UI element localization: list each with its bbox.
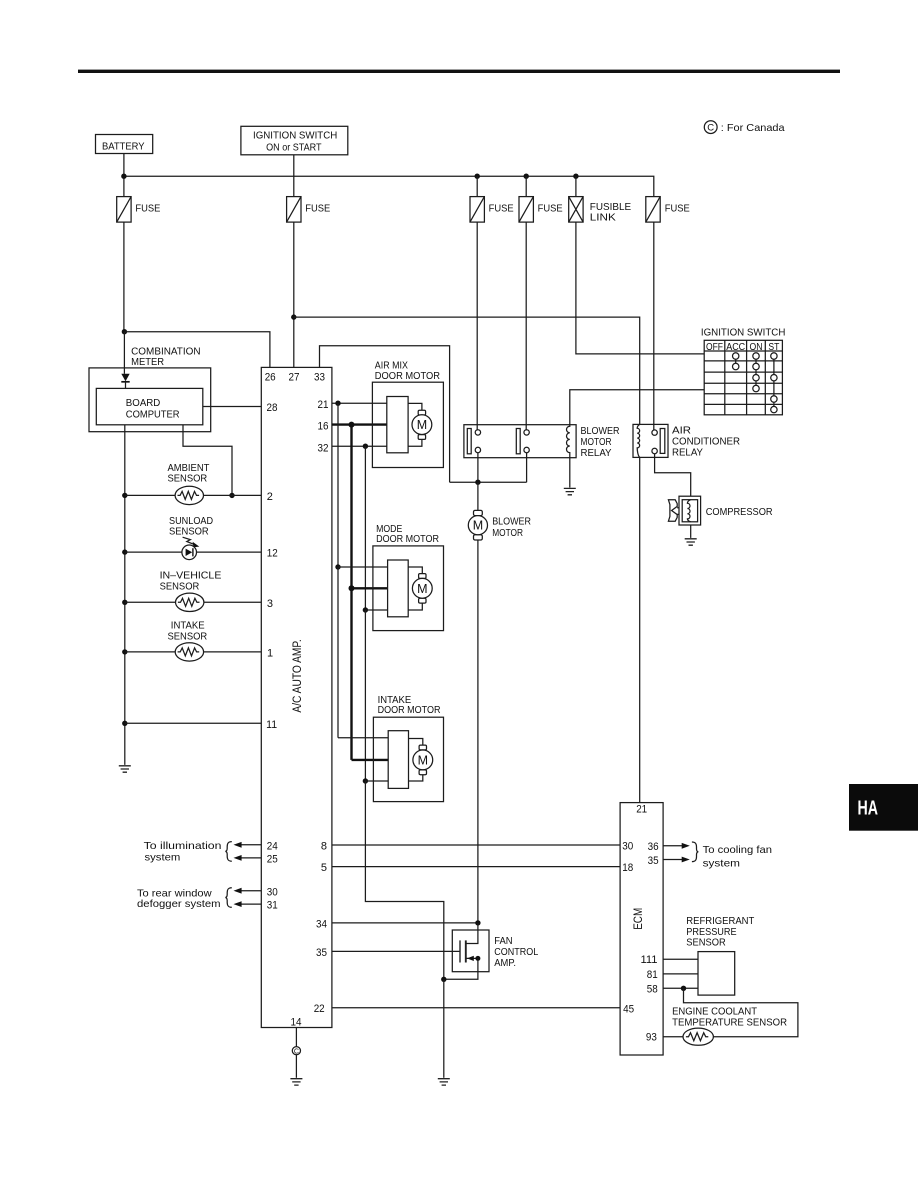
- svg-text:SENSOR: SENSOR: [168, 630, 208, 642]
- svg-text:FUSE: FUSE: [135, 203, 160, 215]
- pin 1: [267, 648, 273, 660]
- svg-text:30: 30: [622, 840, 633, 852]
- ambient sensor: [168, 462, 210, 505]
- node fuse4 tap: [524, 174, 529, 179]
- wire compressor to ground: [690, 525, 692, 538]
- wire board computer branch to ambient line: [183, 425, 232, 496]
- pin 3: [267, 598, 273, 610]
- brace illumination: [225, 842, 231, 862]
- HA section tab: [849, 784, 918, 831]
- arrow to illumination pin 25: [234, 855, 262, 861]
- wire a/c relay contact to compressor: [655, 454, 691, 497]
- ECM pin 36: [648, 841, 659, 853]
- label to rear window defogger system: [137, 887, 221, 910]
- svg-text:24: 24: [267, 840, 278, 852]
- ECM pin 111: [641, 954, 658, 966]
- svg-text:IGNITION SWITCH: IGNITION SWITCH: [253, 130, 337, 142]
- svg-text:2: 2: [267, 491, 273, 503]
- wire meter feed down to diode: [123, 332, 125, 374]
- svg-text:BLOWER: BLOWER: [492, 516, 531, 528]
- wire junction bar under relay: [450, 481, 527, 483]
- svg-text:FUSE: FUSE: [305, 203, 330, 215]
- pin 11: [266, 719, 277, 731]
- wire to a/c relay coil: [294, 317, 640, 424]
- ground fan control amp: [438, 1079, 450, 1085]
- pin 33: [314, 371, 325, 383]
- svg-text:MOTOR: MOTOR: [492, 527, 523, 539]
- wire intake line b thick: [352, 759, 389, 761]
- svg-text:FUSE: FUSE: [665, 203, 690, 215]
- fusible link FL: [569, 197, 631, 224]
- pin 27: [289, 371, 300, 383]
- pin 12: [267, 548, 278, 560]
- svg-text:COMPUTER: COMPUTER: [126, 408, 180, 420]
- pin 28: [267, 402, 278, 414]
- svg-text:58: 58: [647, 984, 658, 996]
- wire canada connector to ground: [295, 1055, 297, 1078]
- ground blower relay: [564, 488, 576, 494]
- svg-text:111: 111: [641, 954, 658, 966]
- ECM pin 93: [646, 1032, 657, 1044]
- wire intake sensor line pin 1: [125, 651, 261, 653]
- ECM box: [620, 803, 663, 1055]
- wire in-vehicle sensor line pin 3: [125, 601, 261, 603]
- svg-text:RELAY: RELAY: [672, 447, 703, 459]
- svg-text:28: 28: [267, 402, 278, 414]
- top rule: [78, 70, 840, 73]
- fuse F3: [470, 197, 514, 223]
- fuse F1 battery: [117, 197, 161, 223]
- svg-text:36: 36: [648, 841, 659, 853]
- node mode branch b: [349, 585, 355, 591]
- note: C For Canada: [704, 121, 784, 135]
- wire mode to intake vertical c: [364, 610, 366, 781]
- pin 32: [318, 442, 329, 454]
- svg-text:11: 11: [266, 719, 277, 731]
- svg-text:M: M: [417, 418, 427, 432]
- svg-text:25: 25: [267, 854, 278, 866]
- brace cooling fan: [692, 842, 698, 862]
- wire pin 11 line: [125, 722, 261, 724]
- wire fusible link to ignition switch table row1: [576, 222, 704, 354]
- wire branch vertical thick to mode motor b: [350, 425, 352, 589]
- wire fuse4 drop: [525, 176, 527, 196]
- refrigerant pressure sensor: [686, 915, 755, 995]
- node blower motor junction: [475, 480, 480, 485]
- svg-text:26: 26: [265, 371, 276, 383]
- node pin16 branch: [349, 422, 355, 428]
- wire ignition fuse down to amp pin 27: [293, 222, 295, 367]
- svg-text:system: system: [703, 857, 741, 869]
- svg-text:93: 93: [646, 1032, 657, 1044]
- ECM pin 45: [623, 1004, 634, 1016]
- wire intake line c: [365, 780, 388, 782]
- ECM pin 35: [648, 855, 659, 867]
- node bus ambient: [122, 493, 127, 498]
- pin 8: [321, 840, 327, 852]
- wire pin33 feed path: [320, 346, 450, 483]
- wire coolant sensor loop: [684, 988, 798, 1036]
- node pin32 branch: [363, 444, 368, 449]
- svg-text:35: 35: [648, 855, 659, 867]
- wire pin 21 line: [332, 402, 387, 404]
- diode in combination meter: [121, 374, 129, 389]
- svg-text:SENSOR: SENSOR: [686, 936, 726, 948]
- svg-text:31: 31: [267, 900, 278, 912]
- svg-text:14: 14: [291, 1016, 302, 1028]
- ground amp pin 14: [290, 1079, 302, 1085]
- wire battery fuse to meter junction: [123, 222, 125, 332]
- svg-text:ACC: ACC: [726, 342, 745, 353]
- wire branch to amp pin 26: [124, 332, 270, 368]
- node fan amp drain junction: [475, 920, 480, 925]
- board computer box: [96, 388, 203, 424]
- svg-text:SENSOR: SENSOR: [169, 525, 209, 537]
- wire branch vertical to mode motor a: [337, 403, 339, 567]
- wire blower motor down to fan control amp: [477, 540, 479, 923]
- arrow to illumination pin 24: [234, 842, 262, 848]
- svg-text:8: 8: [321, 840, 327, 852]
- a/c auto amp box: [261, 367, 332, 1027]
- wire blower relay outputs to junction: [478, 453, 527, 483]
- svg-text:21: 21: [318, 399, 329, 411]
- svg-text:ST: ST: [768, 342, 779, 353]
- pin 5: [321, 862, 327, 874]
- motor M blower motor: [468, 510, 531, 540]
- intake door motor box: [373, 694, 443, 802]
- node fusible link tap: [573, 174, 578, 179]
- ECM pin 30: [622, 840, 633, 852]
- relay K1 blower motor relay: [464, 425, 620, 459]
- wire pin 34 line: [332, 922, 478, 924]
- pin 31: [267, 900, 278, 912]
- ground compressor: [685, 539, 697, 545]
- wire pin 14 to ground via canada connector: [295, 1028, 297, 1047]
- svg-text:3: 3: [267, 598, 273, 610]
- wire to fan amp ground: [443, 979, 445, 1078]
- combination meter box: [89, 345, 211, 431]
- wire branch vertical to mode motor c: [364, 446, 366, 610]
- node battery bus junction: [121, 174, 126, 179]
- wire mode line c: [365, 609, 387, 611]
- wire battery drop: [123, 154, 125, 197]
- svg-text:To cooling fan: To cooling fan: [703, 844, 773, 856]
- svg-text:HA: HA: [858, 796, 879, 819]
- svg-text:A/C AUTO AMP.: A/C AUTO AMP.: [292, 639, 304, 712]
- node bus intake: [122, 649, 127, 654]
- compressor with magnet clutch: [668, 496, 773, 525]
- wire pin 8 to ECM 30: [332, 844, 620, 846]
- svg-text:FUSE: FUSE: [538, 203, 563, 215]
- svg-text:ECM: ECM: [633, 908, 645, 930]
- wire pin 5 to ECM 18: [332, 866, 620, 868]
- label to cooling fan system: [703, 844, 773, 870]
- svg-text:ON or START: ON or START: [266, 141, 322, 153]
- svg-text:LINK: LINK: [590, 212, 616, 224]
- wire blower relay coil to ground: [569, 458, 571, 488]
- svg-text:12: 12: [267, 548, 278, 560]
- node ambient branch junction: [229, 493, 234, 498]
- wire fuse5 to a/c relay contact: [653, 222, 655, 430]
- fuse F4: [519, 197, 563, 223]
- wire fuse4 to blower relay contact: [525, 222, 527, 430]
- svg-text:RELAY: RELAY: [581, 447, 612, 459]
- wire fuse3 to blower relay contact: [476, 222, 478, 430]
- sunload sensor: [169, 515, 213, 560]
- svg-text:C: C: [707, 123, 714, 134]
- svg-text:33: 33: [314, 371, 325, 383]
- svg-text:18: 18: [622, 862, 633, 874]
- fan control amp: [444, 923, 539, 979]
- wire intake line a: [338, 737, 388, 739]
- wire pin 22 to ECM 45: [332, 1007, 620, 1009]
- node pin21 branch: [335, 401, 340, 406]
- node mode branch a: [335, 564, 340, 569]
- node bus sunload: [122, 549, 127, 554]
- svg-text:system: system: [145, 851, 181, 863]
- node canada circle C: [292, 1047, 300, 1056]
- pin 26: [265, 371, 276, 383]
- svg-text:DOOR MOTOR: DOOR MOTOR: [378, 704, 441, 716]
- ECM pin 18: [622, 862, 633, 874]
- fuse F5: [646, 197, 690, 223]
- wire ambient sensor line pin 2: [125, 494, 261, 496]
- wire intake common to fan amp ground: [365, 781, 443, 979]
- pin 21: [318, 399, 329, 411]
- svg-text:30: 30: [267, 886, 278, 898]
- svg-text:BATTERY: BATTERY: [102, 140, 145, 152]
- svg-text:27: 27: [289, 371, 300, 383]
- arrow ECM 36 cooling fan: [663, 843, 690, 849]
- engine coolant temperature sensor: [672, 1006, 787, 1046]
- svg-text:SENSOR: SENSOR: [168, 472, 208, 484]
- wire board computer to amp pin 28: [203, 406, 261, 408]
- node coolant branch: [681, 986, 686, 991]
- svg-text:M: M: [418, 753, 428, 767]
- wire a/c relay coil to ECM pin 21: [639, 457, 641, 802]
- relay K2 air conditioner relay: [633, 424, 740, 458]
- svg-text:SENSOR: SENSOR: [160, 580, 200, 592]
- wire pin 16 line thick: [332, 423, 387, 425]
- node fet source junction: [475, 956, 480, 961]
- arrow ECM 35 cooling fan: [663, 857, 690, 863]
- wire ignition switch drop: [293, 155, 295, 197]
- fuse F2 ignition: [287, 197, 331, 223]
- pin 22: [314, 1003, 325, 1015]
- pin 30: [267, 886, 278, 898]
- svg-text:FUSE: FUSE: [489, 203, 514, 215]
- svg-text:45: 45: [623, 1004, 634, 1016]
- svg-text:: For Canada: : For Canada: [721, 122, 785, 134]
- svg-text:21: 21: [636, 804, 647, 816]
- svg-text:1: 1: [267, 648, 273, 660]
- battery B1: [96, 135, 153, 154]
- svg-text:TEMPERATURE SENSOR: TEMPERATURE SENSOR: [672, 1016, 787, 1028]
- svg-text:32: 32: [318, 442, 329, 454]
- svg-text:16: 16: [318, 421, 329, 433]
- wire pin 32 line: [332, 445, 387, 447]
- wire mode to intake vertical a: [337, 567, 339, 738]
- wire pin 35 gate line: [332, 950, 460, 952]
- pin 25: [267, 854, 278, 866]
- pin 34: [316, 918, 327, 930]
- svg-text:DOOR MOTOR: DOOR MOTOR: [376, 533, 439, 545]
- wire junction to blower motor: [477, 482, 479, 510]
- svg-text:To illumination: To illumination: [144, 840, 222, 852]
- ignition switch connection table: [701, 326, 786, 415]
- svg-text:ON: ON: [750, 342, 763, 353]
- svg-text:BOARD: BOARD: [126, 397, 161, 409]
- ECM pin 81: [647, 969, 658, 981]
- wire mode line b thick: [352, 587, 388, 589]
- label to illumination system: [144, 840, 222, 863]
- node intake branch c: [363, 778, 368, 783]
- arrow to defogger pin 30: [234, 888, 262, 894]
- wire mode line a: [338, 566, 388, 568]
- svg-text:IGNITION SWITCH: IGNITION SWITCH: [701, 326, 786, 338]
- wire sunload sensor line pin 12: [125, 551, 261, 553]
- air mix door motor box: [372, 360, 443, 468]
- svg-text:M: M: [473, 519, 483, 533]
- wire fuse3 drop: [476, 176, 478, 196]
- svg-text:35: 35: [316, 947, 327, 959]
- svg-text:22: 22: [314, 1003, 325, 1015]
- node meter branch junction: [122, 329, 127, 334]
- pin 35: [316, 947, 327, 959]
- pin 24: [267, 840, 278, 852]
- wire mode to intake vertical thick b: [350, 588, 352, 760]
- svg-text:COMPRESSOR: COMPRESSOR: [706, 506, 773, 518]
- ECM pin 58: [647, 984, 658, 996]
- node fuse3 tap: [475, 174, 480, 179]
- svg-text:AMP.: AMP.: [494, 957, 516, 969]
- svg-text:OFF: OFF: [706, 342, 723, 353]
- node a/c relay coil branch: [291, 314, 296, 319]
- svg-text:defogger system: defogger system: [137, 898, 221, 910]
- wire fusible link drop: [575, 176, 577, 196]
- node bus in-vehicle: [122, 600, 127, 605]
- svg-text:81: 81: [647, 969, 658, 981]
- wire ECM 58 to sensor: [663, 987, 698, 989]
- arrow to defogger pin 31: [234, 901, 262, 907]
- node mode branch c: [363, 607, 368, 612]
- svg-text:34: 34: [316, 918, 327, 930]
- wire ECM 81 to sensor: [663, 973, 698, 975]
- svg-text:M: M: [417, 582, 427, 596]
- wire ECM 111 to sensor: [663, 958, 698, 960]
- wire ignition switch table row4 to blower relay coil: [570, 390, 704, 425]
- svg-text:METER: METER: [131, 356, 164, 368]
- node bus pin11: [122, 721, 127, 726]
- intake sensor: [168, 620, 208, 662]
- svg-text:5: 5: [321, 862, 327, 874]
- mode door motor box: [373, 523, 444, 631]
- svg-text:DOOR MOTOR: DOOR MOTOR: [375, 370, 441, 382]
- in-vehicle sensor: [160, 570, 222, 612]
- ground sensor bus: [119, 766, 131, 772]
- pin 2: [267, 491, 273, 503]
- pin 16: [318, 421, 329, 433]
- pin 14: [291, 1016, 302, 1028]
- wire coolant sensor to ECM 93: [663, 1036, 683, 1038]
- brace defogger: [225, 888, 231, 908]
- wire sensor common bus: [124, 425, 126, 765]
- ignition switch source box: [241, 126, 348, 155]
- svg-text:C: C: [294, 1049, 299, 1056]
- wire supply bus: [124, 176, 654, 196]
- node fan amp ground junction: [441, 977, 446, 982]
- ECM pin 21: [636, 804, 647, 816]
